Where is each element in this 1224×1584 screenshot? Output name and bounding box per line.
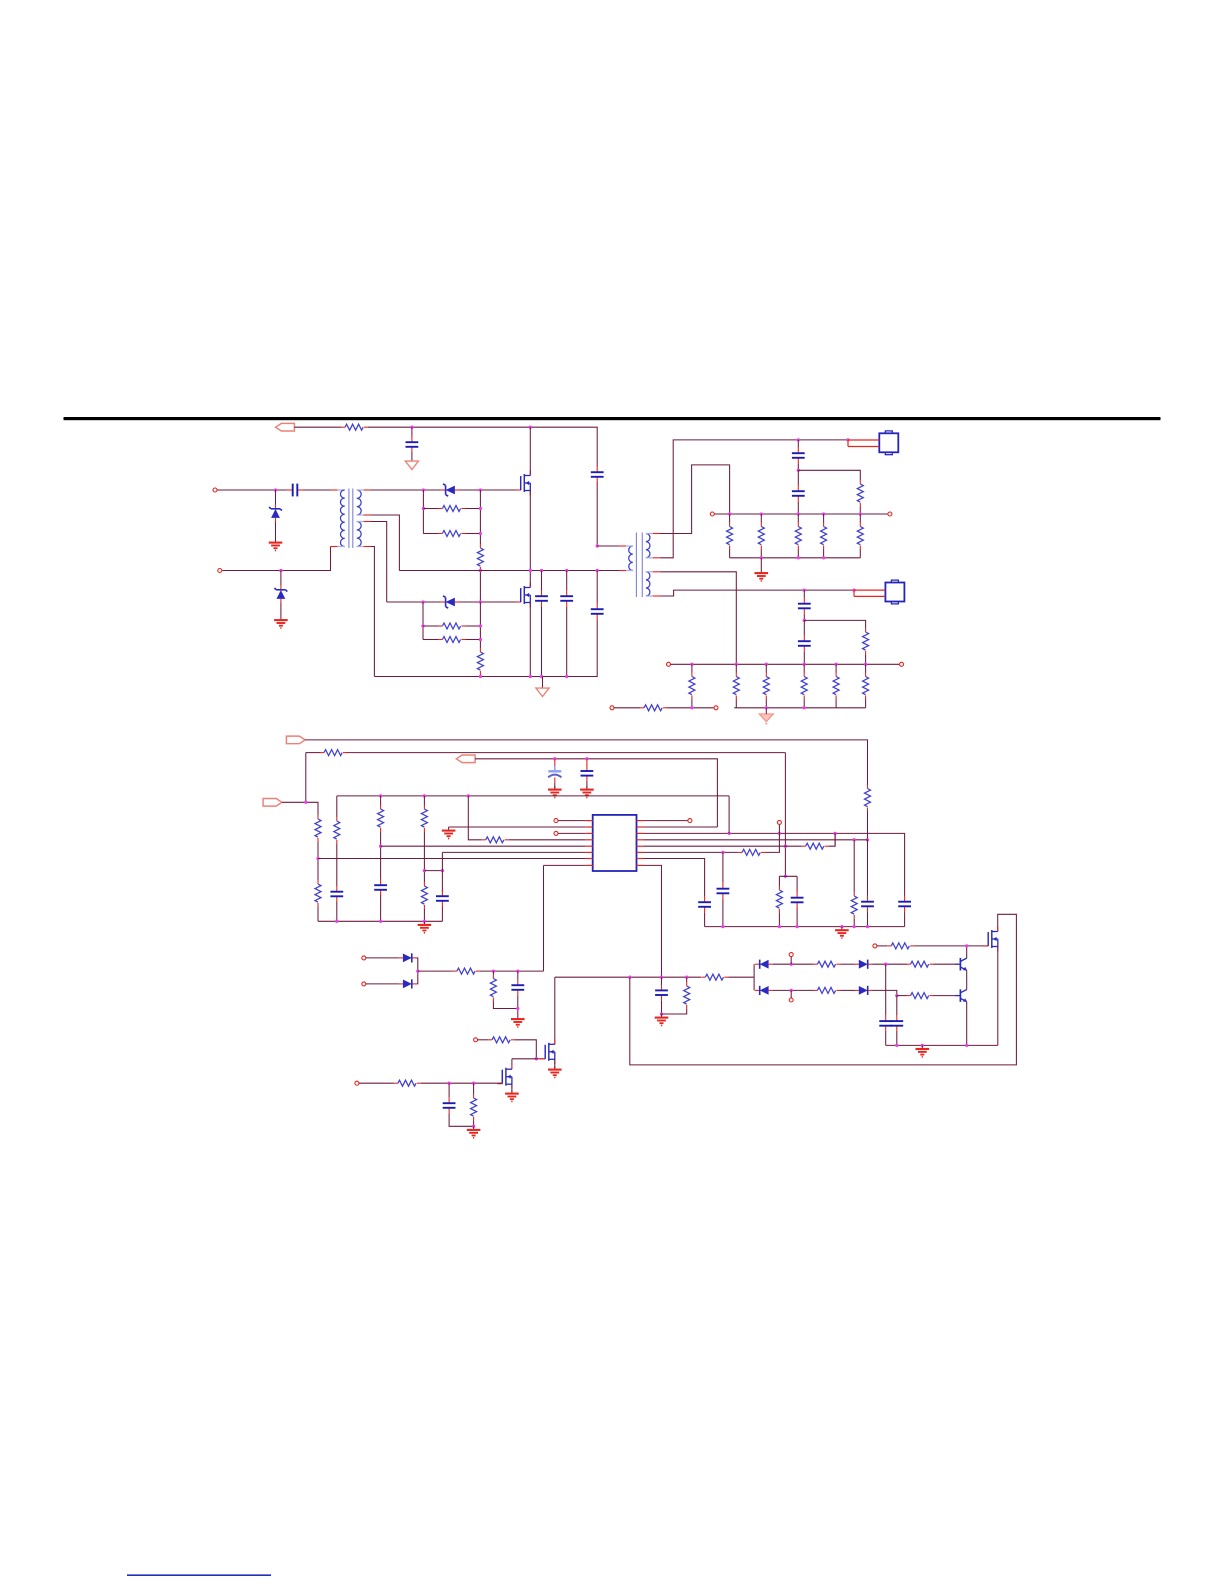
IC pin stubs left bbox=[586, 820, 593, 822]
junction bbox=[921, 1044, 924, 1047]
resistor R8 bbox=[857, 480, 863, 507]
pin P4 bbox=[888, 512, 892, 516]
resistor R43 bbox=[490, 975, 496, 1002]
pin P13 bbox=[789, 953, 793, 957]
power ground bbox=[542, 677, 544, 686]
junction bbox=[965, 1044, 968, 1047]
wire pin2 bbox=[449, 826, 586, 828]
wire bbox=[411, 427, 413, 436]
wire bbox=[304, 489, 331, 491]
wire bbox=[380, 896, 382, 922]
wire bbox=[722, 852, 724, 882]
resistor R37 bbox=[813, 961, 840, 967]
transistor Q5 bbox=[955, 989, 967, 1002]
junction bbox=[765, 706, 768, 709]
wire bbox=[586, 782, 588, 790]
wire bbox=[424, 870, 442, 872]
junction bbox=[797, 512, 800, 515]
resistor R9 bbox=[727, 523, 733, 550]
wire pin7 bbox=[318, 858, 586, 860]
wire bbox=[790, 957, 792, 965]
junction bbox=[728, 512, 731, 515]
zener D2 bbox=[275, 585, 288, 603]
junction bbox=[335, 920, 338, 923]
wire bbox=[423, 832, 425, 882]
junction bbox=[685, 976, 688, 979]
wire bbox=[867, 812, 869, 840]
transformer T2 core bbox=[635, 533, 637, 598]
capacitor C23 bbox=[890, 1015, 903, 1032]
junction bbox=[479, 638, 482, 641]
wire bbox=[222, 547, 330, 571]
wire bbox=[728, 976, 754, 978]
wire bbox=[865, 655, 867, 664]
wire pin4 bbox=[468, 796, 481, 840]
wire bbox=[479, 675, 481, 677]
resistor R19 bbox=[833, 673, 839, 700]
wire pin3 net bbox=[644, 833, 905, 896]
wire bbox=[554, 977, 556, 1044]
junction bbox=[797, 469, 800, 472]
emitter rail wire bbox=[886, 1044, 998, 1046]
junction bbox=[760, 556, 763, 559]
junction bbox=[803, 706, 806, 709]
capacitor C5 bbox=[591, 466, 604, 483]
resistor R27 bbox=[378, 805, 384, 832]
wire bbox=[368, 427, 597, 466]
transistor Q4 bbox=[955, 958, 967, 971]
junction bbox=[540, 569, 543, 572]
capacitor C19 bbox=[861, 896, 874, 913]
junction bbox=[479, 624, 482, 627]
mid rail wire bbox=[399, 570, 620, 572]
mosfet Q3 bbox=[983, 927, 998, 952]
wire net W977 bbox=[555, 976, 701, 978]
junction bbox=[422, 488, 425, 491]
wire bbox=[480, 970, 544, 972]
capacitor C7 bbox=[792, 447, 805, 464]
wire bbox=[558, 820, 586, 822]
junction bbox=[660, 1012, 663, 1015]
transformer T1 secondary winding A bbox=[357, 490, 361, 515]
junction bbox=[833, 832, 836, 835]
pin P10 bbox=[554, 831, 558, 835]
secondary lower rail wire bbox=[730, 557, 861, 559]
wire pin5 bbox=[381, 845, 586, 847]
wire bbox=[282, 802, 318, 815]
wire bbox=[423, 639, 438, 641]
junction bbox=[274, 488, 277, 491]
junction bbox=[803, 588, 806, 591]
pin P8 bbox=[714, 706, 718, 710]
transformer T2 secondary winding B bbox=[646, 572, 650, 596]
junction bbox=[553, 757, 556, 760]
wire bbox=[729, 514, 731, 523]
diode D8 bbox=[855, 986, 873, 995]
wire bbox=[896, 996, 898, 1015]
ground bbox=[548, 1066, 562, 1078]
junction bbox=[822, 512, 825, 515]
capacitor C24 bbox=[511, 979, 524, 996]
ground bbox=[548, 786, 562, 798]
lead bbox=[331, 546, 338, 548]
wire pin6 net bbox=[644, 851, 739, 853]
junction bbox=[803, 663, 806, 666]
wire bbox=[997, 947, 999, 1046]
junction bbox=[379, 920, 382, 923]
capacitor C8 bbox=[792, 485, 805, 502]
wire bbox=[661, 465, 730, 534]
wire bbox=[823, 514, 825, 523]
wire pin5 net bbox=[644, 845, 802, 847]
wire bbox=[558, 832, 586, 834]
junction bbox=[423, 920, 426, 923]
capacitor C11 bbox=[554, 759, 556, 766]
junction bbox=[895, 1044, 898, 1047]
wire bbox=[306, 752, 321, 754]
wire bbox=[517, 971, 519, 979]
resistor R33 bbox=[776, 886, 782, 913]
wire bbox=[366, 983, 399, 985]
junction bbox=[864, 663, 867, 666]
wire bbox=[441, 852, 443, 892]
bottom rail wire bbox=[318, 920, 442, 922]
wire bbox=[803, 620, 805, 635]
transformer T2 secondary winding A bbox=[646, 534, 650, 558]
wire bbox=[614, 707, 640, 709]
wire bbox=[596, 483, 598, 546]
diode D7 bbox=[755, 986, 773, 995]
capacitor C13 bbox=[330, 886, 343, 903]
bottom lower rail wire bbox=[734, 707, 865, 709]
ground bbox=[580, 786, 594, 798]
resistor R15 bbox=[689, 673, 695, 700]
wire pin6 bbox=[442, 851, 585, 853]
wire bbox=[305, 753, 307, 803]
net arrow VIN bbox=[276, 423, 295, 431]
junction bbox=[628, 976, 631, 979]
wire bbox=[765, 825, 779, 853]
pin P9 bbox=[554, 819, 558, 823]
capacitor C22 bbox=[879, 1015, 892, 1032]
net arrow VCC bbox=[286, 736, 305, 744]
transformer T1 core bbox=[348, 489, 350, 549]
lead bbox=[331, 489, 338, 491]
wire bbox=[336, 796, 338, 817]
junction bbox=[421, 600, 424, 603]
wire pin8 bbox=[544, 864, 586, 866]
ground bbox=[269, 539, 283, 551]
ground bbox=[835, 927, 849, 939]
pin P18 bbox=[474, 1038, 478, 1042]
wire bbox=[529, 491, 531, 571]
wire bbox=[644, 826, 718, 828]
wire bbox=[380, 796, 382, 805]
wire bbox=[798, 470, 860, 480]
wire bbox=[305, 740, 867, 785]
wire bbox=[478, 1039, 488, 1041]
wire pin7 net bbox=[644, 859, 705, 897]
junction bbox=[304, 801, 307, 804]
junction bbox=[803, 619, 806, 622]
capacitor C20 bbox=[898, 896, 911, 913]
junction bbox=[660, 976, 663, 979]
junction bbox=[690, 663, 693, 666]
resistor R31 bbox=[802, 843, 829, 849]
wire bbox=[217, 489, 287, 491]
net arrow VREF bbox=[456, 755, 475, 763]
resistor R32 bbox=[738, 849, 765, 855]
pin P17 bbox=[362, 982, 366, 986]
wire bbox=[897, 995, 907, 997]
junction bbox=[467, 794, 470, 797]
resistor R3 bbox=[438, 531, 465, 537]
junction bbox=[965, 944, 968, 947]
wire bbox=[460, 489, 521, 491]
wire bbox=[492, 971, 494, 974]
wire bbox=[294, 426, 341, 428]
pin P19 bbox=[355, 1081, 359, 1085]
wire bbox=[529, 427, 531, 475]
capacitor C3 bbox=[535, 590, 548, 607]
wire bbox=[479, 571, 481, 602]
junction bbox=[760, 512, 763, 515]
junction bbox=[416, 969, 419, 972]
connector CN2 bbox=[885, 580, 904, 604]
wire bbox=[966, 1002, 968, 1046]
wire bbox=[840, 989, 854, 991]
junction bbox=[585, 757, 588, 760]
wire bbox=[885, 964, 887, 1015]
junction bbox=[540, 675, 543, 678]
ground bbox=[467, 1126, 481, 1138]
wire bbox=[667, 707, 714, 709]
junction bbox=[690, 706, 693, 709]
wire node A bbox=[422, 490, 424, 534]
wire bbox=[336, 902, 338, 921]
wire bbox=[423, 533, 438, 535]
capacitor C16 bbox=[698, 896, 711, 913]
wire bbox=[797, 514, 799, 523]
ground bbox=[655, 1014, 669, 1026]
resistor R20 bbox=[863, 673, 869, 700]
wire bbox=[803, 664, 805, 672]
junction bbox=[422, 507, 425, 510]
ground bbox=[511, 1016, 525, 1028]
junction bbox=[421, 624, 424, 627]
capacitor C2 bbox=[287, 484, 304, 497]
ground bbox=[916, 1045, 930, 1057]
wire bbox=[275, 490, 277, 504]
wire bbox=[804, 620, 865, 628]
junction bbox=[529, 569, 532, 572]
wire bbox=[423, 909, 425, 921]
wire bbox=[797, 470, 799, 485]
net arrow COMP bbox=[263, 799, 282, 807]
resistor R21 bbox=[640, 705, 667, 711]
pin P3 bbox=[710, 512, 714, 516]
wire bbox=[661, 440, 849, 558]
input pin J1 bbox=[213, 488, 217, 492]
resistor R2 bbox=[438, 506, 465, 512]
ground bbox=[505, 1090, 519, 1102]
junction bbox=[529, 426, 532, 429]
wire pin4 net bbox=[644, 839, 868, 841]
ground bbox=[760, 558, 762, 570]
capacitor C21 bbox=[655, 984, 668, 1001]
wire bbox=[417, 958, 418, 984]
junction bbox=[492, 969, 495, 972]
wire bbox=[566, 571, 568, 591]
diode D9 bbox=[399, 953, 417, 962]
wire bbox=[529, 571, 531, 588]
mosfet Q1 bbox=[516, 471, 531, 496]
junction bbox=[790, 963, 793, 966]
junction bbox=[778, 832, 781, 835]
zener D4 bbox=[441, 596, 460, 608]
capacitor C12 bbox=[586, 759, 588, 766]
resistor R42 bbox=[453, 968, 480, 974]
wire bbox=[421, 1082, 502, 1084]
resistor R4 bbox=[477, 544, 483, 571]
pin P12 bbox=[777, 820, 781, 824]
wire bbox=[728, 796, 730, 834]
resistor R28 bbox=[421, 805, 427, 832]
wire bbox=[691, 664, 693, 672]
junction bbox=[853, 838, 856, 841]
capacitor C4 bbox=[560, 590, 573, 607]
junction bbox=[853, 925, 856, 928]
wire bbox=[753, 964, 755, 990]
wire bbox=[317, 907, 319, 921]
resistor R22 bbox=[865, 785, 871, 812]
junction bbox=[516, 969, 519, 972]
junction bbox=[565, 569, 568, 572]
junction bbox=[778, 925, 781, 928]
junction bbox=[535, 1057, 538, 1060]
wire bbox=[835, 664, 837, 672]
wire bbox=[423, 796, 425, 805]
wire bbox=[418, 970, 453, 972]
junction bbox=[379, 845, 382, 848]
junction bbox=[784, 845, 787, 848]
junction bbox=[834, 663, 837, 666]
junction bbox=[447, 1082, 450, 1085]
wire bbox=[778, 876, 780, 886]
resistor R23 bbox=[320, 750, 347, 756]
resistor R10 bbox=[758, 523, 764, 550]
junction bbox=[410, 426, 413, 429]
wire loop bbox=[630, 914, 1017, 1065]
ground bbox=[418, 921, 432, 933]
wire bbox=[865, 664, 867, 672]
wire bbox=[686, 977, 688, 982]
junction bbox=[279, 569, 282, 572]
capacitor C6 bbox=[591, 603, 604, 620]
wire bbox=[347, 752, 786, 754]
resistor R6 bbox=[438, 637, 465, 643]
wire bbox=[475, 759, 717, 827]
lead bbox=[357, 514, 364, 516]
resistor R26 bbox=[334, 817, 340, 844]
resistor R7 bbox=[477, 648, 483, 675]
junction bbox=[479, 507, 482, 510]
pin P14 bbox=[789, 998, 793, 1002]
wire bbox=[867, 913, 869, 927]
resistor R41 bbox=[887, 943, 914, 949]
connector CN2 pins bbox=[854, 589, 885, 591]
junction bbox=[479, 532, 482, 535]
junction bbox=[529, 675, 532, 678]
capacitor C15 bbox=[436, 890, 449, 907]
wire bbox=[380, 832, 382, 880]
wire bbox=[661, 572, 737, 665]
wire bbox=[797, 440, 799, 447]
resistor R12 bbox=[821, 523, 827, 550]
resistor R44 bbox=[488, 1037, 515, 1043]
horizontal rule bbox=[64, 417, 1161, 420]
capacitor C25 bbox=[443, 1097, 456, 1114]
wire bbox=[859, 514, 861, 523]
wire bbox=[914, 945, 988, 947]
capacitor C14 bbox=[374, 879, 387, 896]
wire bbox=[644, 820, 688, 822]
junction bbox=[846, 438, 849, 441]
capacitor C18 bbox=[791, 892, 804, 909]
junction bbox=[735, 663, 738, 666]
ground bbox=[274, 617, 288, 629]
wire bbox=[515, 1040, 536, 1059]
wire bbox=[885, 1032, 887, 1046]
wire bbox=[511, 1084, 513, 1092]
wire bbox=[840, 963, 854, 965]
resistor R11 bbox=[795, 523, 801, 550]
transformer T1 primary winding bbox=[340, 490, 344, 547]
pin P16 bbox=[362, 956, 366, 960]
wire bbox=[371, 489, 442, 491]
wire bbox=[773, 989, 814, 991]
junction bbox=[479, 488, 482, 491]
junction bbox=[441, 869, 444, 872]
junction bbox=[840, 925, 843, 928]
wire bbox=[411, 453, 413, 459]
resistor R13 bbox=[857, 523, 863, 550]
junction bbox=[866, 925, 869, 928]
junction bbox=[795, 925, 798, 928]
capacitor C9 bbox=[798, 598, 811, 615]
resistor R1 bbox=[341, 424, 368, 430]
wire bbox=[366, 957, 399, 959]
junction bbox=[765, 663, 768, 666]
diode D5 bbox=[755, 960, 773, 969]
IC pin stubs right bbox=[637, 820, 644, 822]
junction bbox=[479, 600, 482, 603]
lead bbox=[626, 545, 633, 547]
wire bbox=[371, 522, 387, 603]
wire bbox=[796, 876, 798, 891]
capacitor C10 bbox=[798, 635, 811, 652]
wire node B bbox=[422, 602, 424, 640]
bottom rail wire bbox=[671, 663, 900, 665]
rail wire bbox=[337, 795, 729, 797]
junction bbox=[379, 794, 382, 797]
pin P6 bbox=[900, 662, 904, 666]
wire bbox=[317, 842, 319, 880]
wire bbox=[597, 545, 619, 547]
junction bbox=[565, 675, 568, 678]
resistor R29 bbox=[421, 882, 427, 909]
wire bbox=[853, 840, 855, 892]
